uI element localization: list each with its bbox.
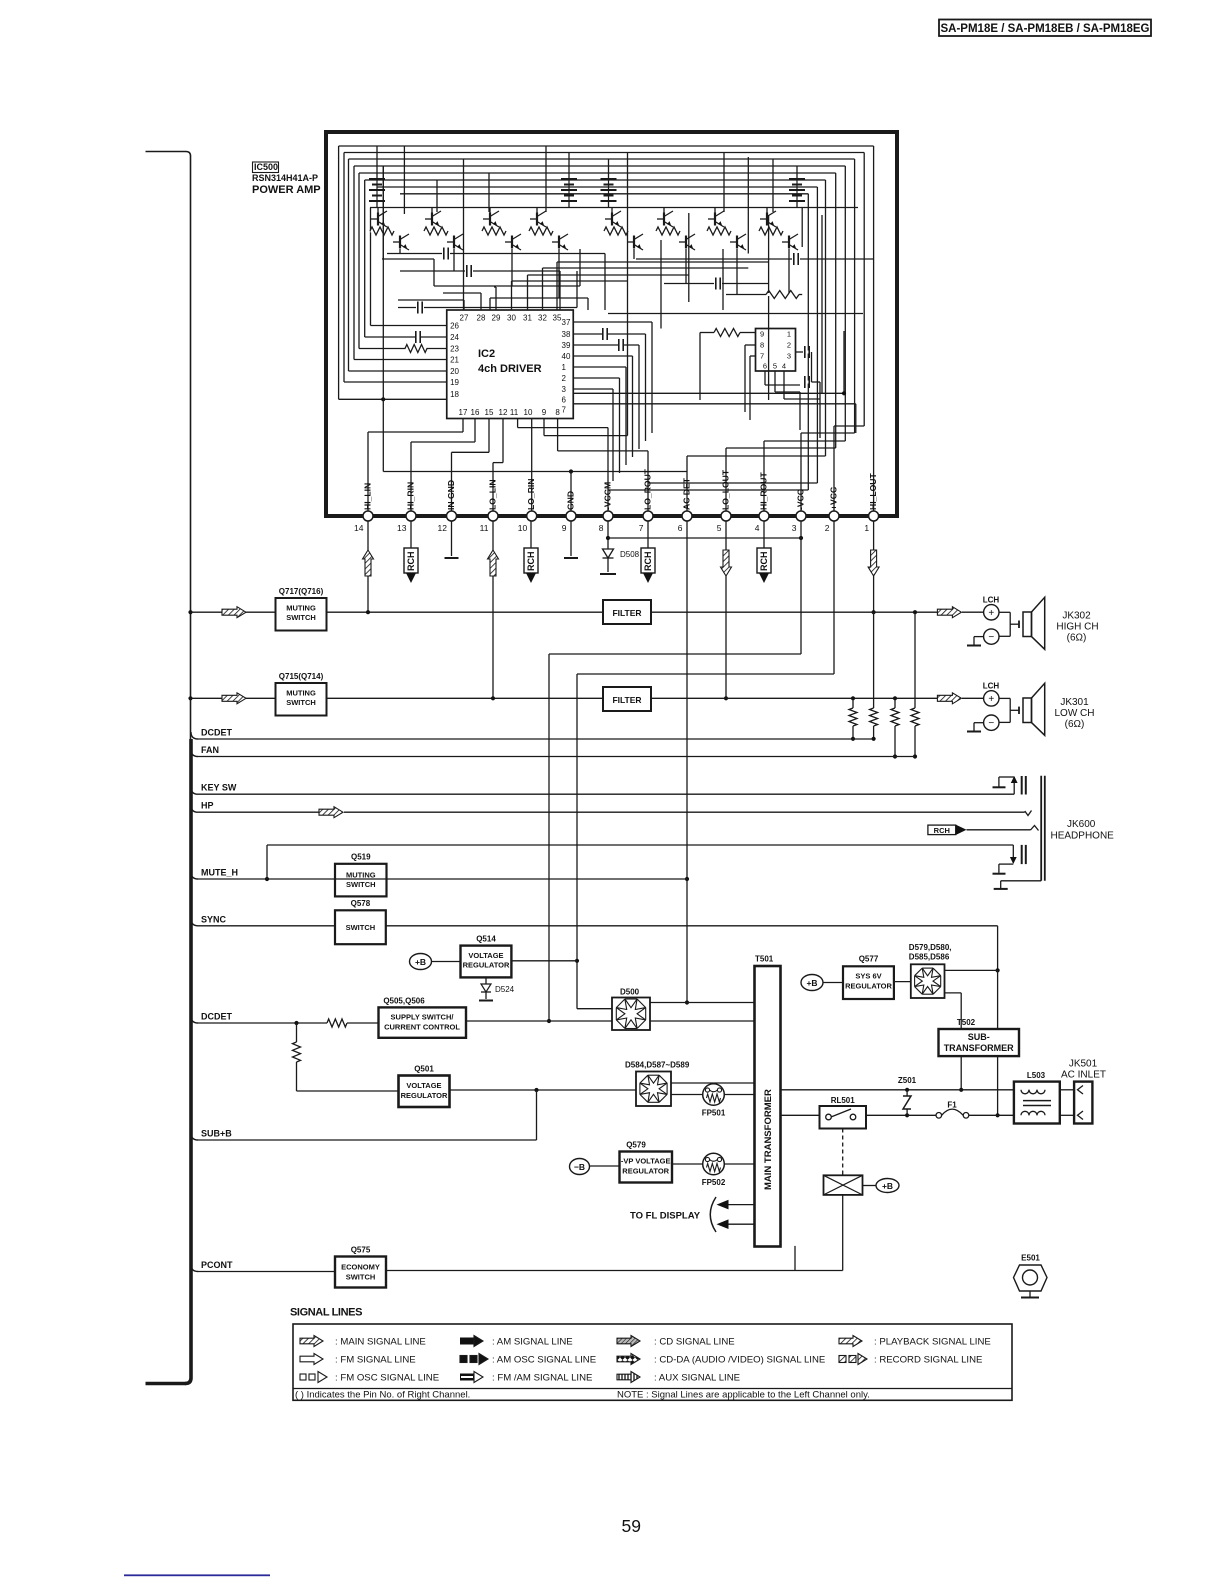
svg-text:30: 30: [507, 314, 516, 323]
svg-text:TRANSFORMER: TRANSFORMER: [944, 1043, 1014, 1053]
svg-text:(6Ω): (6Ω): [1067, 633, 1087, 644]
svg-text:11: 11: [480, 523, 489, 533]
svg-text:17: 17: [459, 408, 468, 417]
svg-text:10: 10: [524, 408, 533, 417]
svg-text:29: 29: [492, 314, 501, 323]
svg-text:Z501: Z501: [898, 1076, 917, 1085]
svg-text:39: 39: [562, 341, 571, 350]
svg-text:: AM OSC SIGNAL LINE: : AM OSC SIGNAL LINE: [492, 1355, 596, 1366]
svg-text:IN GND: IN GND: [446, 480, 456, 510]
svg-text:10: 10: [518, 523, 528, 533]
svg-text:: AM SIGNAL LINE: : AM SIGNAL LINE: [492, 1337, 573, 1348]
svg-text:IC2: IC2: [478, 348, 495, 360]
svg-text:SYNC: SYNC: [201, 914, 227, 924]
svg-text:GND: GND: [566, 491, 576, 510]
svg-text:(6Ω): (6Ω): [1065, 719, 1085, 730]
svg-text:HI_LIN: HI_LIN: [363, 483, 373, 510]
svg-text:FP501: FP501: [702, 1109, 726, 1118]
svg-text:: CD-DA (AUDIO /VIDEO) SIGNAL: : CD-DA (AUDIO /VIDEO) SIGNAL LINE: [654, 1355, 825, 1366]
svg-text:RSN314H41A-P: RSN314H41A-P: [252, 173, 318, 183]
svg-text:LOW CH: LOW CH: [1055, 708, 1095, 719]
svg-text:21: 21: [450, 355, 459, 364]
svg-text:7: 7: [562, 405, 567, 414]
svg-text:AC DET: AC DET: [682, 477, 692, 510]
svg-text:VOLTAGE: VOLTAGE: [406, 1081, 441, 1090]
svg-text:NOTE : Signal Lines are applic: NOTE : Signal Lines are applicable to th…: [617, 1390, 870, 1401]
svg-text:32: 32: [538, 314, 547, 323]
svg-text:HIGH CH: HIGH CH: [1056, 622, 1098, 633]
svg-text:20: 20: [450, 367, 459, 376]
svg-text:D524: D524: [495, 985, 515, 994]
svg-text:1: 1: [562, 363, 567, 372]
svg-text:1: 1: [864, 523, 869, 533]
svg-text:13: 13: [397, 523, 407, 533]
svg-text:9: 9: [562, 523, 567, 533]
svg-text:2: 2: [562, 374, 567, 383]
svg-text:RL501: RL501: [831, 1096, 856, 1105]
svg-text:SYS 6V: SYS 6V: [855, 972, 881, 981]
svg-text:D584,D587~D589: D584,D587~D589: [625, 1061, 690, 1070]
svg-text:2: 2: [825, 523, 830, 533]
svg-text:28: 28: [477, 314, 486, 323]
svg-text:MUTE_H: MUTE_H: [201, 868, 238, 878]
svg-text:: CD SIGNAL LINE: : CD SIGNAL LINE: [654, 1337, 735, 1348]
svg-text:24: 24: [450, 333, 459, 342]
svg-text:D579,D580,: D579,D580,: [909, 943, 952, 952]
svg-text:T502: T502: [957, 1018, 976, 1027]
svg-text:MAIN TRANSFORMER: MAIN TRANSFORMER: [763, 1089, 774, 1190]
svg-text:18: 18: [450, 390, 459, 399]
svg-text:RCH: RCH: [643, 552, 653, 572]
svg-text:SWITCH: SWITCH: [286, 613, 316, 622]
svg-text:D508: D508: [620, 550, 640, 559]
svg-text:26: 26: [450, 321, 459, 330]
svg-text:5: 5: [717, 523, 722, 533]
svg-text:: FM OSC SIGNAL LINE: : FM OSC SIGNAL LINE: [335, 1373, 439, 1384]
svg-text:L503: L503: [1027, 1071, 1046, 1080]
svg-text:HI_ROUT: HI_ROUT: [759, 472, 769, 510]
svg-text:HI_LOUT: HI_LOUT: [868, 472, 878, 510]
svg-text:31: 31: [523, 314, 532, 323]
svg-text:4ch DRIVER: 4ch DRIVER: [478, 363, 542, 375]
svg-text:Q578: Q578: [351, 899, 371, 908]
svg-text:15: 15: [485, 408, 494, 417]
svg-text:MUTING: MUTING: [286, 604, 316, 613]
svg-text:−: −: [988, 632, 994, 643]
svg-text:8: 8: [760, 341, 764, 350]
svg-text:Q579: Q579: [626, 1141, 646, 1150]
svg-text:SWITCH: SWITCH: [346, 1273, 376, 1282]
svg-text:D585,D586: D585,D586: [909, 953, 950, 962]
svg-text:−B: −B: [574, 1162, 585, 1172]
svg-text:8: 8: [555, 408, 560, 417]
svg-text:Q501: Q501: [414, 1065, 434, 1074]
svg-text:TO FL DISPLAY: TO FL DISPLAY: [630, 1211, 701, 1222]
svg-text:SUB+B: SUB+B: [201, 1129, 232, 1139]
svg-text:5: 5: [773, 362, 777, 371]
svg-text:DCDET: DCDET: [201, 1012, 233, 1022]
svg-text:REGULATOR: REGULATOR: [845, 982, 892, 991]
svg-text:6: 6: [678, 523, 683, 533]
svg-text:9: 9: [542, 408, 547, 417]
svg-text:IC500: IC500: [254, 162, 278, 172]
svg-text:+B: +B: [415, 957, 426, 967]
svg-text:LO_ROUT: LO_ROUT: [643, 468, 653, 510]
svg-text:8: 8: [599, 523, 604, 533]
svg-text:12: 12: [499, 408, 508, 417]
svg-text:RCH: RCH: [406, 552, 416, 572]
svg-text:27: 27: [460, 314, 469, 323]
svg-text:SWITCH: SWITCH: [346, 880, 376, 889]
svg-text:T501: T501: [755, 955, 774, 964]
svg-text:Q715(Q714): Q715(Q714): [279, 672, 324, 681]
svg-text:SA-PM18E / SA-PM18EB / SA-PM18: SA-PM18E / SA-PM18EB / SA-PM18EG: [941, 23, 1150, 35]
svg-text:JK301: JK301: [1060, 697, 1089, 708]
svg-text:FAN: FAN: [201, 745, 219, 755]
svg-text:Q519: Q519: [351, 853, 371, 862]
svg-text:4: 4: [782, 362, 786, 371]
svg-text:3: 3: [562, 385, 567, 394]
svg-text:4: 4: [755, 523, 760, 533]
svg-text:11: 11: [510, 408, 519, 417]
svg-text:HP: HP: [201, 801, 214, 811]
svg-text:19: 19: [450, 378, 459, 387]
svg-text:Q514: Q514: [476, 935, 496, 944]
svg-text:23: 23: [450, 344, 459, 353]
svg-text:LCH: LCH: [983, 682, 1000, 691]
svg-text:AC INLET: AC INLET: [1061, 1070, 1106, 1081]
svg-text:3: 3: [787, 352, 791, 361]
svg-text:38: 38: [562, 330, 571, 339]
svg-text:REGULATOR: REGULATOR: [463, 961, 510, 970]
svg-text:: FM SIGNAL LINE: : FM SIGNAL LINE: [335, 1355, 416, 1366]
svg-text:16: 16: [471, 408, 480, 417]
svg-text:VOLTAGE: VOLTAGE: [468, 951, 503, 960]
svg-text:CURRENT CONTROL: CURRENT CONTROL: [384, 1023, 460, 1032]
svg-text:LCH: LCH: [983, 596, 1000, 605]
svg-text:: AUX SIGNAL LINE: : AUX SIGNAL LINE: [654, 1373, 740, 1384]
svg-text:: MAIN SIGNAL LINE: : MAIN SIGNAL LINE: [335, 1337, 426, 1348]
svg-text:RCH: RCH: [526, 552, 536, 572]
svg-text:D500: D500: [620, 988, 640, 997]
svg-text:Q577: Q577: [859, 955, 879, 964]
svg-text:JK600: JK600: [1067, 819, 1096, 830]
svg-text:FP502: FP502: [702, 1178, 726, 1187]
svg-text:KEY SW: KEY SW: [201, 783, 237, 793]
svg-text:7: 7: [639, 523, 644, 533]
svg-text:+B: +B: [806, 978, 817, 988]
svg-text:HEADPHONE: HEADPHONE: [1051, 831, 1115, 842]
svg-text:1: 1: [787, 330, 791, 339]
svg-text:: PLAYBACK SIGNAL LINE: : PLAYBACK SIGNAL LINE: [874, 1337, 991, 1348]
svg-text:MUTING: MUTING: [346, 871, 376, 880]
svg-text:JK302: JK302: [1062, 611, 1091, 622]
svg-text:6: 6: [763, 362, 767, 371]
svg-text:POWER AMP: POWER AMP: [252, 184, 321, 196]
svg-text:−: −: [988, 718, 994, 729]
svg-text:LO_LOUT: LO_LOUT: [721, 469, 731, 510]
svg-text:REGULATOR: REGULATOR: [401, 1091, 448, 1100]
svg-text:( ) Indicates the Pin No. of: ( ) Indicates the Pin No. of Right Chann…: [295, 1390, 470, 1401]
svg-text:HI_RIN: HI_RIN: [406, 482, 416, 510]
svg-text:37: 37: [562, 318, 571, 327]
svg-text:SWITCH: SWITCH: [346, 923, 376, 932]
svg-text:+: +: [988, 694, 994, 705]
svg-text:-VCCM: -VCCM: [603, 482, 613, 510]
svg-text:DCDET: DCDET: [201, 728, 233, 738]
svg-text:Q575: Q575: [351, 1246, 371, 1255]
svg-text:+: +: [988, 608, 994, 619]
svg-text:7: 7: [760, 352, 764, 361]
svg-text:Q505,Q506: Q505,Q506: [383, 997, 425, 1006]
svg-text:RCH: RCH: [759, 552, 769, 572]
svg-text:LO_RIN: LO_RIN: [526, 478, 536, 510]
svg-text:9: 9: [760, 330, 764, 339]
svg-text:+VCC: +VCC: [829, 487, 839, 510]
svg-text:FILTER: FILTER: [612, 608, 641, 618]
svg-text:LO_LIN: LO_LIN: [488, 479, 498, 510]
svg-text:REGULATOR: REGULATOR: [622, 1167, 669, 1176]
svg-text:-VP VOLTAGE: -VP VOLTAGE: [621, 1157, 671, 1166]
svg-text:6: 6: [562, 395, 567, 404]
svg-text:RCH: RCH: [934, 826, 950, 835]
svg-text:+B: +B: [882, 1181, 893, 1191]
svg-text:14: 14: [354, 523, 364, 533]
svg-text:-VCC: -VCC: [796, 489, 806, 510]
svg-text:JK501: JK501: [1069, 1059, 1098, 1070]
svg-text:2: 2: [787, 341, 791, 350]
svg-text:3: 3: [792, 523, 797, 533]
svg-text:SWITCH: SWITCH: [286, 698, 316, 707]
svg-text:E501: E501: [1021, 1254, 1040, 1263]
svg-text:MUTING: MUTING: [286, 689, 316, 698]
svg-text:SIGNAL LINES: SIGNAL LINES: [290, 1307, 362, 1319]
svg-text:F1: F1: [947, 1101, 957, 1110]
svg-text:ECONOMY: ECONOMY: [341, 1263, 380, 1272]
svg-text:SUB-: SUB-: [968, 1032, 990, 1042]
svg-text:SUPPLY SWITCH/: SUPPLY SWITCH/: [391, 1013, 455, 1022]
svg-text:Q717(Q716): Q717(Q716): [279, 587, 324, 596]
svg-text:59: 59: [622, 1516, 641, 1536]
svg-text:40: 40: [562, 352, 571, 361]
svg-text:PCONT: PCONT: [201, 1260, 233, 1270]
svg-text:12: 12: [438, 523, 448, 533]
svg-text:: FM /AM SIGNAL LINE: : FM /AM SIGNAL LINE: [492, 1373, 592, 1384]
svg-text:FILTER: FILTER: [612, 695, 641, 705]
svg-text:: RECORD SIGNAL LINE: : RECORD SIGNAL LINE: [874, 1355, 982, 1366]
